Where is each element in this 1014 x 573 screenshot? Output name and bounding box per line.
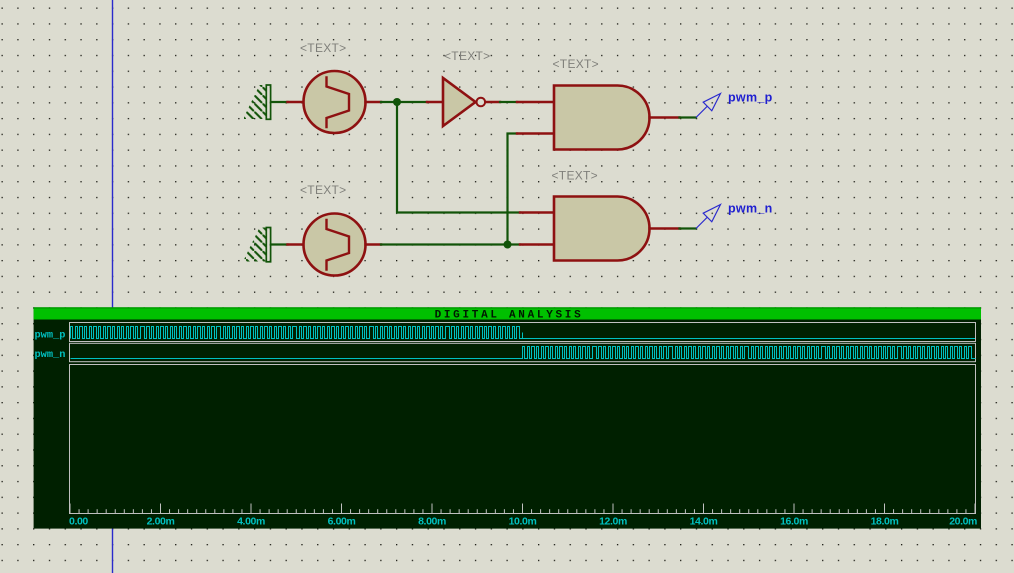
terminal pwm_n: [696, 205, 721, 229]
pin G2 left (red): [288, 243, 305, 245]
pin U2 output (red): [650, 116, 680, 118]
wire G2 to U3: [381, 243, 520, 245]
waveform pwm_n: [71, 347, 976, 359]
pin G1 left (red): [288, 101, 305, 103]
svg-text:pwm_n: pwm_n: [35, 349, 66, 361]
plot frame: [70, 365, 976, 514]
svg-text:0.00: 0.00: [69, 515, 88, 527]
svg-text:2.00m: 2.00m: [147, 515, 175, 527]
axis major ticks: [70, 504, 975, 514]
svg-text:pwm_n: pwm_n: [728, 202, 773, 216]
junction node B: [504, 241, 512, 249]
pulse generator G2: [304, 214, 366, 276]
axis minor ticks: [79, 509, 966, 513]
panel background: [34, 307, 981, 528]
svg-text:8.00m: 8.00m: [418, 515, 446, 527]
svg-text:<TEXT>: <TEXT>: [300, 183, 346, 197]
junction node A: [393, 98, 401, 106]
trace frame pwm_n: [70, 343, 976, 361]
svg-text:4.00m: 4.00m: [237, 515, 265, 527]
svg-text:<TEXT>: <TEXT>: [444, 49, 490, 63]
svg-text:20.0m: 20.0m: [949, 515, 977, 527]
pin U1 output (red): [486, 101, 501, 103]
input hatch bar J2: [244, 228, 271, 262]
inverter U1: [443, 78, 476, 126]
svg-text:pwm_p: pwm_p: [728, 91, 773, 105]
wire U3 output to terminal: [680, 227, 697, 229]
svg-text:<TEXT>: <TEXT>: [300, 41, 346, 55]
wire U1 to U2: [500, 101, 517, 103]
panel title bar: [34, 307, 981, 319]
wire W5 (input bar to G2): [271, 243, 288, 245]
wire G1 to NOT gate: [381, 101, 427, 103]
svg-text:16.0m: 16.0m: [780, 515, 808, 527]
svg-text:<TEXT>: <TEXT>: [553, 57, 599, 71]
terminal pwm_p: [696, 94, 721, 118]
pin G2 right (red): [366, 243, 382, 245]
pulse generator G1: [304, 71, 366, 133]
sheet border line (top segment): [112, 0, 114, 308]
svg-text:6.00m: 6.00m: [328, 515, 356, 527]
trace frame pwm_p: [70, 323, 976, 342]
svg-text:DIGITAL ANALYSIS: DIGITAL ANALYSIS: [435, 309, 584, 321]
pin U3 input A (red): [520, 211, 554, 213]
sheet border line (bottom segment): [112, 529, 114, 573]
axis labels: [69, 515, 977, 527]
svg-text:14.0m: 14.0m: [690, 515, 718, 527]
wire node B up to U2 input B: [508, 134, 518, 245]
wire node A down to U3 input A: [397, 102, 520, 213]
waveform pwm_p: [71, 327, 976, 339]
wire U2 output to terminal: [680, 116, 697, 118]
pin U2 input B (red): [517, 132, 554, 134]
svg-text:10.0m: 10.0m: [509, 515, 537, 527]
pin G1 right (red): [366, 101, 382, 103]
pin U2 input A (red): [517, 101, 554, 103]
pin U3 output (red): [650, 227, 680, 229]
pin U3 input B (red): [520, 243, 554, 245]
wire W1 (input bar to G1): [271, 101, 288, 103]
pin U1 input (red): [427, 101, 443, 103]
svg-text:18.0m: 18.0m: [871, 515, 899, 527]
AND gate U3: [554, 197, 650, 261]
svg-text:<TEXT>: <TEXT>: [552, 169, 598, 183]
svg-text:12.0m: 12.0m: [599, 515, 627, 527]
input hatch bar J1: [244, 85, 271, 119]
svg-text:pwm_p: pwm_p: [35, 329, 66, 341]
AND gate U2: [554, 86, 650, 150]
